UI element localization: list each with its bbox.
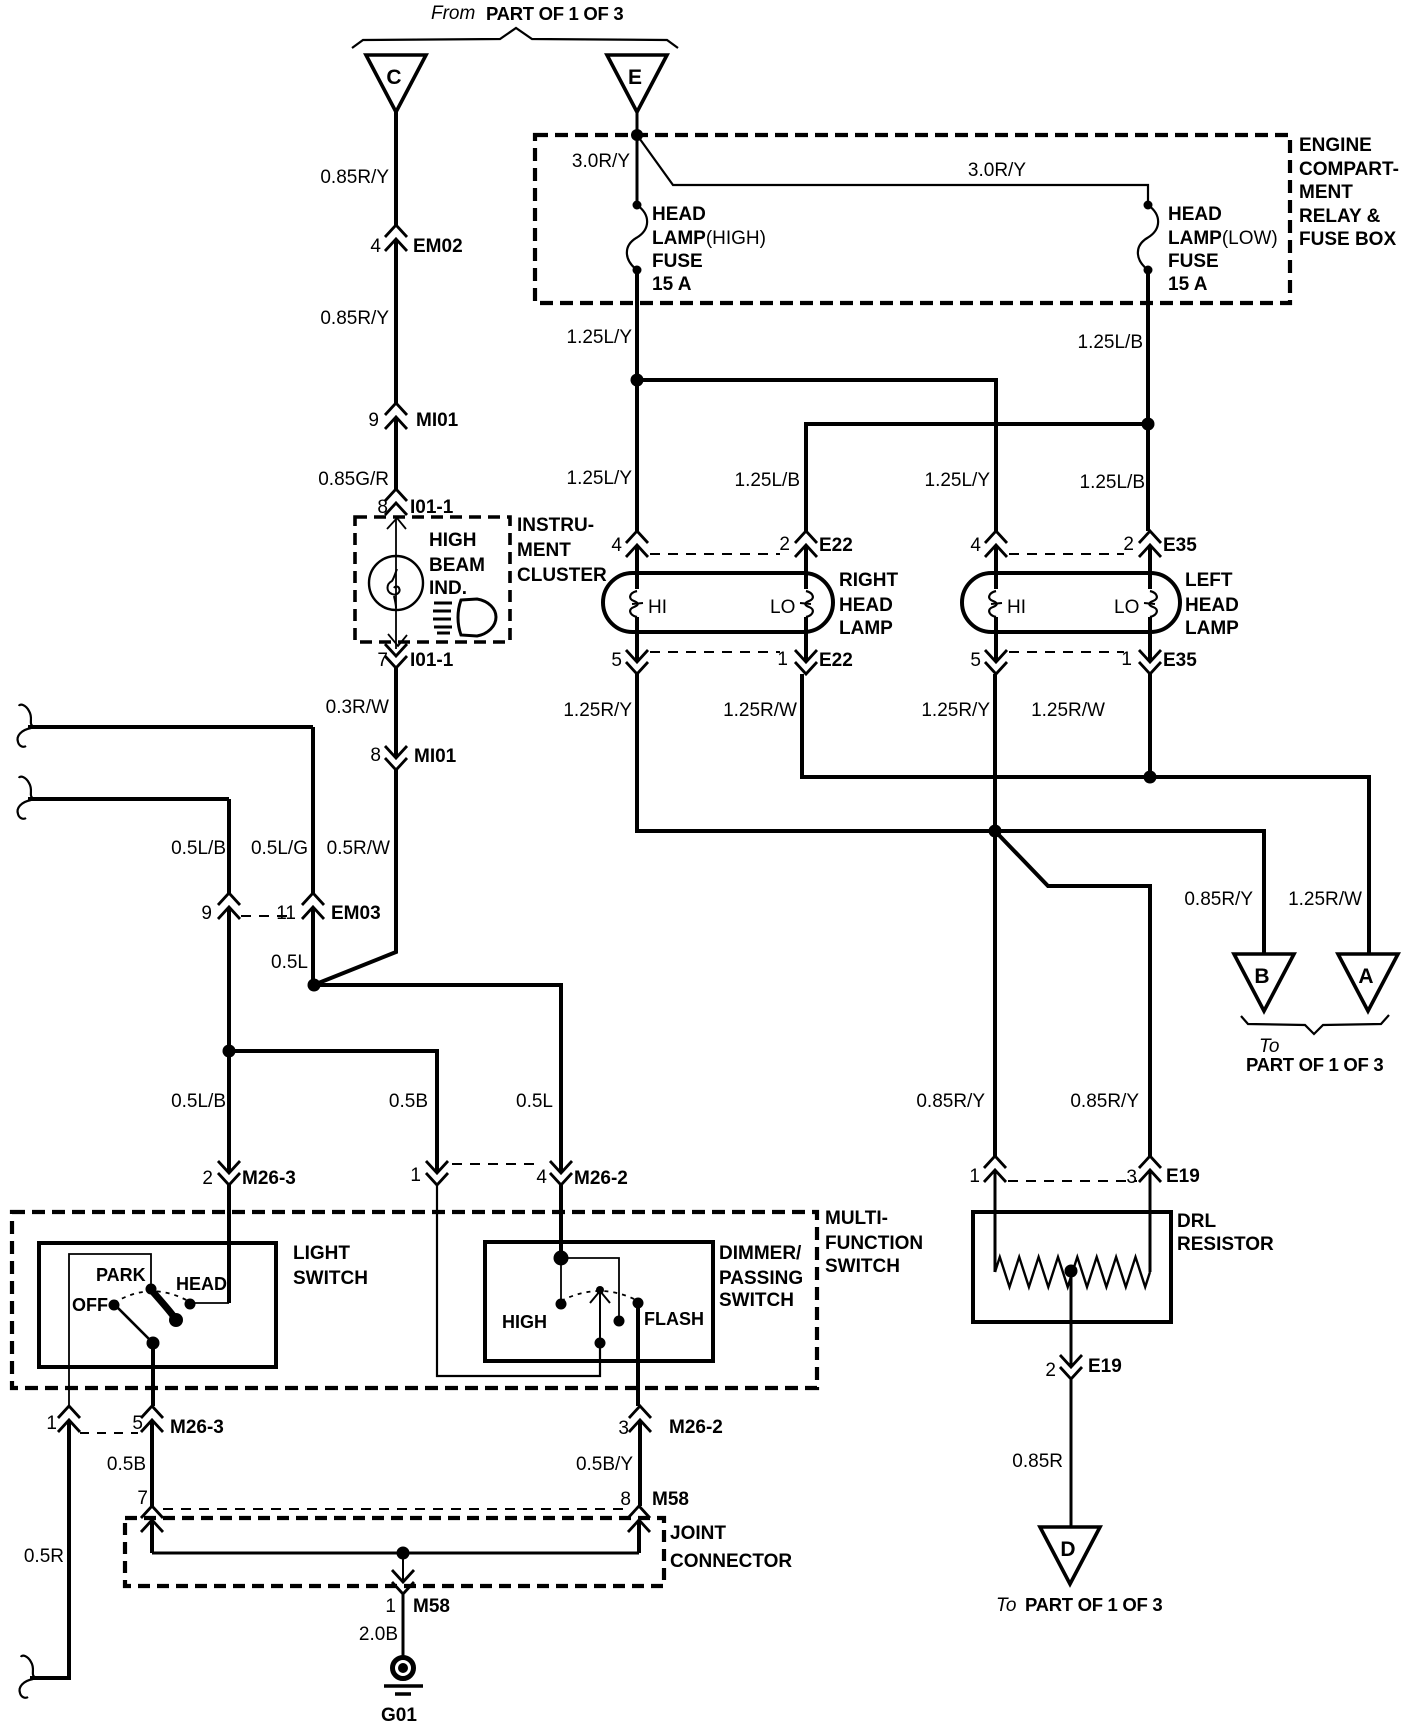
svg-text:2: 2	[779, 534, 790, 555]
svg-text:2: 2	[1045, 1360, 1056, 1381]
dashed link E35	[1009, 553, 1124, 555]
connector E19 pin 3	[1139, 1156, 1161, 1182]
svg-text:MENT: MENT	[1299, 182, 1353, 203]
svg-text:0.85R/Y: 0.85R/Y	[320, 308, 389, 329]
junction M58 bus node	[397, 1547, 410, 1560]
wire C to EM02, 0.85R/Y	[394, 112, 398, 225]
wire down to EM03 pin 11	[311, 727, 315, 893]
connector E22 pin 5	[626, 650, 648, 674]
wire MI01 to I01-1, 0.85G/R	[394, 417, 398, 489]
svg-text:M58: M58	[652, 1489, 689, 1510]
connector E19 pin 1	[984, 1156, 1006, 1182]
svg-text:3: 3	[1126, 1167, 1137, 1188]
svg-text:4: 4	[970, 535, 981, 556]
ground G01	[393, 1658, 414, 1679]
svg-text:1.25L/Y: 1.25L/Y	[925, 470, 991, 491]
junction node at box edge	[631, 129, 643, 141]
junction low beam return node	[1144, 771, 1157, 784]
svg-text:HEAD: HEAD	[1168, 204, 1222, 225]
feed to HIGH contact	[560, 1258, 562, 1300]
off-page hook	[19, 777, 35, 799]
svg-text:2: 2	[1123, 534, 1134, 555]
wire center tap to E19 pin2	[1070, 1271, 1073, 1367]
HIGH contact	[556, 1299, 567, 1310]
wire EM03 pin 11 to junction, 0.5L	[311, 907, 315, 985]
svg-text:0.5R: 0.5R	[24, 1546, 64, 1567]
high beam icon lens	[458, 599, 496, 636]
svg-text:JOINT: JOINT	[670, 1523, 726, 1544]
svg-text:4: 4	[611, 535, 622, 556]
svg-text:0.5L: 0.5L	[516, 1091, 553, 1112]
wire to E35 pin4, 1.25L/Y	[637, 380, 996, 531]
svg-text:1.25L/Y: 1.25L/Y	[567, 327, 633, 348]
svg-text:D: D	[1060, 1538, 1075, 1561]
svg-text:1.25R/W: 1.25R/W	[1288, 889, 1362, 910]
svg-text:0.85R/Y: 0.85R/Y	[1070, 1091, 1139, 1112]
middle contact	[614, 1316, 625, 1327]
off-page connector B	[1234, 954, 1294, 1011]
junction high beam return node	[989, 825, 1002, 838]
svg-text:1: 1	[969, 1166, 980, 1187]
high beam filament contact	[630, 591, 638, 617]
wiper arm	[153, 1292, 174, 1317]
connector EM03 pin 11	[302, 893, 324, 919]
svg-text:0.85R/Y: 0.85R/Y	[320, 167, 389, 188]
svg-text:HIGH: HIGH	[429, 530, 477, 551]
svg-text:HIGH: HIGH	[502, 1312, 547, 1332]
junction 0.5L node	[308, 979, 321, 992]
low beam filament contact	[1149, 591, 1157, 617]
svg-text:DIMMER/: DIMMER/	[719, 1243, 802, 1264]
PARK contact	[146, 1284, 157, 1295]
svg-text:RIGHT: RIGHT	[839, 570, 899, 591]
wire to off-page (0.5L/B)	[28, 797, 229, 801]
head lamp high fuse 15A	[633, 201, 642, 210]
resistor element	[995, 1257, 1150, 1287]
svg-text:0.5B: 0.5B	[107, 1454, 146, 1475]
RIGHT head lamp	[603, 573, 833, 632]
switch lever to OFF	[117, 1307, 151, 1341]
DRL resistor box	[973, 1212, 1171, 1322]
off-page hook	[19, 705, 35, 727]
svg-text:CLUSTER: CLUSTER	[517, 565, 607, 586]
svg-text:8: 8	[370, 745, 381, 766]
connector MI01 pin 8	[385, 746, 407, 770]
wire EM03 pin 9 down, 0.5L/B	[227, 907, 231, 1173]
svg-text:15 A: 15 A	[1168, 274, 1208, 295]
svg-text:LAMP(HIGH): LAMP(HIGH)	[652, 228, 766, 249]
svg-text:HI: HI	[1007, 597, 1026, 618]
connector M58 pin 1	[392, 1570, 414, 1594]
lamp pin wires	[635, 545, 639, 589]
svg-text:ENGINE: ENGINE	[1299, 135, 1372, 156]
svg-text:FUNCTION: FUNCTION	[825, 1233, 923, 1254]
connector E35 pin 2	[1139, 531, 1161, 557]
svg-text:PART OF 1 OF 3: PART OF 1 OF 3	[1246, 1054, 1383, 1075]
svg-text:M26-3: M26-3	[170, 1417, 224, 1438]
dashed link M58	[163, 1508, 628, 1510]
connector E22 pin 2	[795, 531, 817, 557]
svg-text:PARK: PARK	[96, 1265, 146, 1285]
svg-text:1.25R/W: 1.25R/W	[723, 700, 797, 721]
connector M26-2 pin 4	[550, 1161, 572, 1185]
svg-text:FUSE BOX: FUSE BOX	[1299, 229, 1396, 250]
svg-text:9: 9	[201, 903, 212, 924]
engine compartment relay and fuse box	[535, 135, 1290, 303]
PARK contact wire to M26-3 pin 1	[69, 1254, 151, 1406]
svg-text:LAMP(LOW): LAMP(LOW)	[1168, 228, 1278, 249]
svg-text:MI01: MI01	[414, 746, 457, 767]
joint connector box	[125, 1518, 664, 1586]
svg-text:LO: LO	[770, 597, 795, 618]
wire E22 pin1 to off-page A, 1.25R/W	[802, 674, 1369, 954]
svg-text:COMPART-: COMPART-	[1299, 159, 1399, 180]
connector E22 pin 1	[795, 650, 817, 674]
svg-text:HI: HI	[648, 597, 667, 618]
connector E35 pin 5	[985, 650, 1007, 674]
svg-text:8: 8	[377, 497, 388, 518]
switch common pivot	[147, 1337, 160, 1350]
svg-text:5: 5	[970, 650, 981, 671]
svg-text:G01: G01	[381, 1705, 417, 1726]
svg-text:I01-1: I01-1	[410, 650, 454, 671]
svg-text:DRL: DRL	[1177, 1211, 1216, 1232]
svg-text:11: 11	[276, 903, 296, 924]
svg-text:MENT: MENT	[517, 540, 571, 561]
svg-text:3.0R/Y: 3.0R/Y	[968, 160, 1026, 181]
svg-text:1.25L/B: 1.25L/B	[1078, 332, 1144, 353]
svg-text:0.85R/Y: 0.85R/Y	[1184, 889, 1253, 910]
svg-text:0.85R: 0.85R	[1012, 1451, 1063, 1472]
wiper common node	[595, 1338, 606, 1349]
connector EM02 pin 4	[385, 225, 407, 251]
svg-text:From: From	[431, 3, 475, 24]
svg-text:3: 3	[618, 1418, 629, 1439]
dashed link E19	[1008, 1180, 1137, 1182]
wire E19 pin2 to off-page D, 0.85R	[1070, 1379, 1073, 1527]
svg-text:2.0B: 2.0B	[359, 1624, 398, 1645]
svg-text:0.85G/R: 0.85G/R	[318, 469, 389, 490]
junction high beam node	[631, 374, 644, 387]
svg-text:To: To	[996, 1595, 1016, 1616]
bulb filament	[388, 569, 400, 608]
svg-text:MI01: MI01	[416, 410, 459, 431]
brace from part of 1 of 3	[352, 28, 678, 48]
wire M26-3 pin5 to M58 pin7, 0.5B	[150, 1420, 154, 1506]
svg-text:E35: E35	[1163, 535, 1197, 556]
wire junction to off-page B, 0.85R/Y	[995, 831, 1264, 954]
connector M26-2 pin 1	[426, 1161, 448, 1185]
svg-text:OFF: OFF	[72, 1295, 108, 1315]
wire E22 pin5 to junction, 1.25R/Y	[637, 674, 995, 831]
high beam indicator bulb	[369, 556, 423, 610]
connector E35 pin 1	[1139, 650, 1161, 674]
connector M26-3 pin 2	[218, 1161, 240, 1185]
connector E19 pin 2	[1060, 1355, 1082, 1379]
svg-text:4: 4	[370, 236, 381, 257]
position arc OFF-PARK-HEAD	[114, 1291, 190, 1303]
FLASH contact	[633, 1298, 644, 1309]
svg-text:1.25L/B: 1.25L/B	[1080, 472, 1146, 493]
wiper arrow	[596, 1286, 604, 1294]
svg-text:4: 4	[536, 1167, 547, 1188]
wire to headlamp low fuse, 3.0R/Y	[637, 135, 1148, 205]
connector M58 pin 7	[141, 1506, 163, 1532]
joint connector bus wire	[150, 1520, 154, 1553]
svg-text:E35: E35	[1163, 650, 1197, 671]
svg-text:FLASH: FLASH	[644, 1309, 704, 1329]
dashed link M26-2	[452, 1163, 540, 1165]
svg-text:E22: E22	[819, 535, 853, 556]
light switch box	[39, 1243, 276, 1367]
svg-text:LEFT: LEFT	[1185, 570, 1233, 591]
wire junction to E19 pin3, 0.85R/Y	[995, 831, 1150, 1156]
off-page connector D	[1040, 1527, 1100, 1584]
wire junction to M26-2 pin 1, 0.5B	[229, 1051, 437, 1173]
dashed link E22	[650, 651, 780, 653]
feed to middle contact	[561, 1258, 619, 1317]
wire pivot to M26-3 pin 5	[151, 1343, 155, 1406]
svg-text:HEAD: HEAD	[652, 204, 706, 225]
connector M26-3 pin 5	[141, 1406, 163, 1432]
svg-text:RESISTOR: RESISTOR	[1177, 1234, 1274, 1255]
svg-text:PART OF 1 OF 3: PART OF 1 OF 3	[486, 3, 623, 24]
off-page connector C	[366, 55, 426, 112]
wire to off-page (0.5L/G)	[28, 725, 313, 729]
wire M58 pin1 to ground, 2.0B	[402, 1594, 405, 1657]
svg-text:5: 5	[611, 650, 622, 671]
svg-text:HEAD: HEAD	[1185, 595, 1239, 616]
wire MI01 down to junction, 0.5R/W	[316, 770, 396, 984]
connector M26-2 pin 3	[629, 1406, 651, 1432]
off-page connector E	[607, 55, 667, 112]
wire M26-2 pin3 to M58 pin8, 0.5B/Y	[638, 1420, 642, 1506]
instrument cluster box	[355, 517, 510, 642]
svg-text:M26-2: M26-2	[669, 1417, 723, 1438]
off-page connector A	[1338, 954, 1398, 1011]
lamp pin wires	[994, 545, 998, 589]
wire M26-2 pin 4 into dimmer switch	[559, 1185, 563, 1258]
svg-text:C: C	[386, 66, 401, 89]
dimmer feed node	[554, 1251, 569, 1266]
high beam icon rays	[433, 603, 452, 633]
svg-text:0.5L/G: 0.5L/G	[251, 838, 308, 859]
svg-text:E: E	[628, 66, 642, 89]
svg-text:1: 1	[46, 1413, 57, 1434]
wire EM02 to MI01, 0.85R/Y	[394, 239, 398, 403]
dashed link EM03	[241, 915, 293, 917]
svg-text:7: 7	[137, 1488, 148, 1509]
svg-text:0.5L/B: 0.5L/B	[171, 838, 226, 859]
svg-text:E22: E22	[819, 650, 853, 671]
wire M26-3 pin 2 into light switch (HEAD contact)	[227, 1185, 231, 1303]
svg-text:1: 1	[385, 1596, 396, 1617]
svg-text:SWITCH: SWITCH	[825, 1256, 900, 1277]
resistor center tap node	[1065, 1265, 1078, 1278]
wire junction to M26-2 pin 4, 0.5L	[314, 985, 561, 1173]
low beam filament contact	[805, 591, 813, 617]
svg-text:8: 8	[620, 1489, 631, 1510]
high beam indicator bulb wire with arrows	[395, 519, 397, 649]
svg-text:0.5L/B: 0.5L/B	[171, 1091, 226, 1112]
junction 0.5L/B node	[223, 1045, 236, 1058]
junction low beam node	[1142, 418, 1155, 431]
connector E22 pin 4	[626, 531, 648, 557]
wire to E22 pin2, 1.25L/B	[806, 424, 1148, 531]
svg-text:E19: E19	[1088, 1356, 1122, 1377]
svg-text:0.3R/W: 0.3R/W	[326, 697, 389, 718]
position arc HIGH-FLASH	[561, 1291, 638, 1301]
wire I01-1 to MI01, 0.3R/W	[394, 668, 398, 758]
svg-text:0.5L: 0.5L	[271, 952, 308, 973]
svg-text:0.5B: 0.5B	[389, 1091, 428, 1112]
svg-text:PART OF 1 OF 3: PART OF 1 OF 3	[1025, 1594, 1162, 1615]
svg-text:CONNECTOR: CONNECTOR	[670, 1551, 792, 1572]
svg-text:1.25L/B: 1.25L/B	[735, 470, 801, 491]
connector E35 pin 4	[985, 531, 1007, 557]
wire low fuse to junction, 1.25L/B	[1146, 270, 1150, 424]
wire down to EM03 pin 9	[227, 799, 231, 893]
svg-text:FUSE: FUSE	[1168, 251, 1219, 272]
svg-text:BEAM: BEAM	[429, 555, 485, 576]
wire E35 pin1 to junction	[1148, 674, 1152, 777]
connector I01-1 pin 7	[385, 644, 407, 668]
svg-text:HEAD: HEAD	[839, 595, 893, 616]
svg-text:M26-3: M26-3	[242, 1168, 296, 1189]
svg-text:IND.: IND.	[429, 578, 467, 599]
svg-text:FUSE: FUSE	[652, 251, 703, 272]
connector EM03 pin 9	[218, 893, 240, 919]
svg-text:15 A: 15 A	[652, 274, 692, 295]
svg-text:SWITCH: SWITCH	[719, 1290, 794, 1311]
svg-text:1.25L/Y: 1.25L/Y	[567, 468, 633, 489]
svg-text:1.25R/Y: 1.25R/Y	[563, 700, 632, 721]
connector MI01 pin 9	[385, 403, 407, 429]
dashed link E35	[1009, 651, 1124, 653]
svg-text:3.0R/Y: 3.0R/Y	[572, 151, 630, 172]
brace to part of 1 of 3	[1241, 1015, 1389, 1034]
svg-text:1.25R/W: 1.25R/W	[1031, 700, 1105, 721]
svg-text:E19: E19	[1166, 1166, 1200, 1187]
svg-text:LAMP: LAMP	[1185, 618, 1239, 639]
svg-text:LAMP: LAMP	[839, 618, 893, 639]
connector M58 pin 8	[628, 1506, 650, 1532]
wire FLASH contact to M26-2 pin 3	[636, 1303, 640, 1406]
OFF contact	[109, 1300, 120, 1311]
connector I01-1 pin 8	[385, 489, 407, 515]
svg-text:EM03: EM03	[331, 903, 381, 924]
svg-text:MULTI-: MULTI-	[825, 1208, 888, 1229]
svg-text:9: 9	[368, 410, 379, 431]
high beam filament contact	[989, 591, 997, 617]
svg-text:1.25R/Y: 1.25R/Y	[921, 700, 990, 721]
svg-text:5: 5	[132, 1413, 143, 1434]
svg-text:PASSING: PASSING	[719, 1268, 803, 1289]
svg-text:I01-1: I01-1	[410, 497, 454, 518]
multi-function switch box	[12, 1212, 817, 1388]
dimmer passing switch box	[485, 1242, 713, 1361]
connector M26-3 pin 1	[58, 1406, 80, 1432]
HEAD contact	[185, 1299, 196, 1310]
svg-text:0.85R/Y: 0.85R/Y	[916, 1091, 985, 1112]
svg-text:2: 2	[202, 1168, 213, 1189]
wire E to headlamp high fuse, 3.0R/Y	[636, 112, 639, 205]
wire high fuse to E22 pin4, 1.25L/Y	[635, 270, 639, 531]
svg-text:0.5B/Y: 0.5B/Y	[576, 1454, 633, 1475]
svg-text:1: 1	[410, 1165, 421, 1186]
svg-text:EM02: EM02	[413, 236, 463, 257]
svg-text:M26-2: M26-2	[574, 1168, 628, 1189]
off-page hook	[21, 1656, 37, 1678]
svg-text:M58: M58	[413, 1596, 450, 1617]
dashed link M26-3	[80, 1432, 138, 1434]
svg-text:HEAD: HEAD	[176, 1274, 227, 1294]
svg-text:LIGHT: LIGHT	[293, 1243, 350, 1264]
svg-text:SWITCH: SWITCH	[293, 1268, 368, 1289]
wire M26-3 pin1 to off-page, 0.5R	[30, 1420, 69, 1678]
svg-text:7: 7	[377, 650, 388, 671]
svg-text:A: A	[1358, 965, 1373, 988]
LEFT head lamp	[962, 573, 1180, 632]
svg-text:INSTRU-: INSTRU-	[517, 515, 594, 536]
wire bus to M58 pin 1	[402, 1553, 404, 1582]
wire wiper common to M26-2 pin 1	[437, 1185, 600, 1376]
svg-text:B: B	[1254, 965, 1269, 988]
dashed link E22	[650, 553, 780, 555]
wire to E35 pin2	[1146, 424, 1150, 531]
svg-text:0.5R/W: 0.5R/W	[327, 838, 390, 859]
wire E35 pin5 through junction to E19 pin1, 0.85R/Y	[993, 674, 997, 1156]
wire E19 pin1 into resistor	[994, 1170, 997, 1272]
svg-text:RELAY &: RELAY &	[1299, 206, 1381, 227]
wire E19 pin3 into resistor	[1149, 1170, 1152, 1272]
svg-text:LO: LO	[1114, 597, 1139, 618]
head lamp low fuse 15A	[1144, 201, 1153, 210]
